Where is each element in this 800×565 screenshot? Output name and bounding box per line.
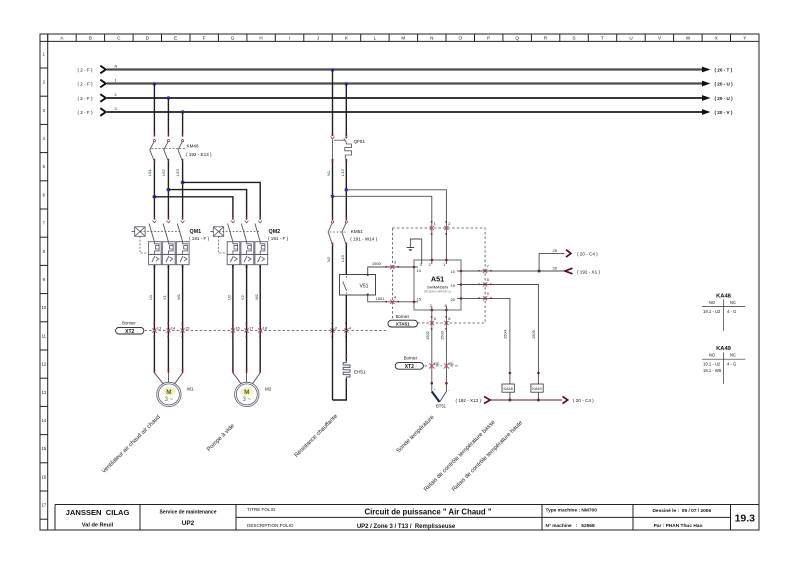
svg-text:KA48: KA48 [716,294,732,300]
svg-text:3: 3 [115,107,117,111]
svg-text:L53: L53 [175,169,180,176]
svg-text:KM46: KM46 [187,144,199,149]
svg-text:A51: A51 [431,275,444,284]
svg-text:19.1 - U2: 19.1 - U2 [703,309,721,314]
sheet frame outer border [40,34,759,530]
heater bottom return wire [333,378,347,400]
svg-text:L: L [374,36,377,41]
terminal XT2:151 [444,362,454,369]
terminal XT2:18 [258,323,268,338]
destination arrow ( 20 - U ) [702,81,711,87]
svg-text:Par : PHAN Thuc Hao: Par : PHAN Thuc Hao [654,523,703,529]
svg-text:( 191 - F ): ( 191 - F ) [189,236,210,241]
svg-text:150: 150 [434,362,440,366]
circuit breaker QF51 [331,133,366,162]
svg-text:Type machine : NM700: Type machine : NM700 [546,508,598,514]
relay coil KA48 [502,384,514,392]
svg-text:15: 15 [185,325,190,330]
svg-text:19.1 - W6: 19.1 - W6 [703,368,722,373]
svg-text:M1: M1 [187,387,194,392]
svg-text:J: J [317,36,319,41]
svg-text:B: B [89,36,92,41]
motor feeder wire [259,265,261,268]
bornier XTA51 dashed enclosure [392,228,485,323]
motor M1 [154,373,194,407]
title block frame [55,504,759,506]
svg-text:2: 2 [115,93,117,97]
terminal XT2:150 [429,362,439,369]
motor M2 [233,373,272,407]
svg-text:17: 17 [249,325,254,330]
crossover wire phase2 to QM2 [168,190,246,217]
svg-text:U2: U2 [227,294,232,300]
terminal XTA51:5 [430,316,437,330]
wire 1503 pin8 down [445,310,447,392]
common wire (192-X13) to (20-C4) [456,396,595,403]
svg-text:26: 26 [553,265,558,270]
svg-text:I: I [289,36,290,41]
svg-text:14: 14 [171,325,176,330]
node on line 2 feeding KM46 [167,96,170,99]
svg-text:X: X [715,36,718,41]
svg-text:L12: L12 [340,169,345,176]
coil return wires [509,392,511,400]
row ruler ticks and numbers [40,67,48,69]
svg-text:13: 13 [41,390,46,395]
wire L drop to QF51 [345,84,347,134]
svg-text:Bornier: Bornier [396,314,410,319]
svg-text:XT2: XT2 [125,329,134,335]
supply wire N to A51 pin 2 [333,196,432,260]
crossover wire phase1 to QM2 [154,197,233,217]
svg-text:14: 14 [417,268,422,273]
relay coil KA49 [531,384,543,392]
svg-text:N° machine : 52568: N° machine : 52568 [546,523,595,529]
svg-text:10: 10 [451,269,456,274]
svg-text:( 2 - F ): ( 2 - F ) [77,67,93,72]
contactor KM51 [328,217,377,247]
svg-text:QM1: QM1 [190,229,202,235]
power line N [107,68,703,70]
svg-text:( 192 - E13 ): ( 192 - E13 ) [186,152,212,157]
svg-text:( 2 - F ): ( 2 - F ) [77,96,93,101]
svg-text:TITRE FOLIO: TITRE FOLIO [247,507,276,512]
svg-text:1501: 1501 [376,296,386,301]
svg-text:1502: 1502 [425,330,430,340]
motor feeder wire [182,265,184,268]
svg-text:Bornier: Bornier [404,355,418,360]
terminal XTA51:3 [385,260,399,270]
terminal XTA51:1 [430,221,437,235]
svg-text:Val de Reuil: Val de Reuil [82,523,114,529]
svg-text:18: 18 [263,325,268,330]
svg-text:KA49: KA49 [532,387,541,391]
svg-text:( 191 - F ): ( 191 - F ) [268,236,289,241]
junction node L to A51 supply [345,188,349,192]
svg-text:UP2 / Zone 3 / T13 / Rempliss: UP2 / Zone 3 / T13 / Remplisseuse [357,524,456,530]
node on line 1 feeding QF51 [345,82,348,85]
terminal XT2:2 [330,323,338,338]
svg-text:25: 25 [553,248,558,253]
wire drop L3 to KM46 [182,112,184,134]
svg-text:15: 15 [41,446,46,451]
svg-text:( 192 - X1 ): ( 192 - X1 ) [577,269,600,274]
ground wire from A51 top [407,239,422,260]
left ruler strip line [47,34,49,530]
power line 3 [107,111,703,113]
svg-text:L51: L51 [147,169,152,176]
svg-text:( 20 - U ): ( 20 - U ) [715,96,734,101]
node on line N feeding QF51 [331,68,334,71]
svg-text:P: P [487,36,490,41]
node on line 1 feeding KM46 [153,82,156,85]
top ruler strip line [40,40,759,42]
heater wire XT2 to EH51 [345,331,347,361]
svg-text:( 20 - C4 ): ( 20 - C4 ) [577,251,598,256]
power line 2 [107,97,703,99]
svg-text:JANSSEN CILAG: JANSSEN CILAG [66,508,130,517]
thermocouple BT51 [431,382,451,408]
svg-text:20: 20 [451,297,456,302]
svg-text:( 191 - W14 ): ( 191 - W14 ) [350,237,377,242]
bornier XT2 (sonde) label [395,355,458,370]
svg-text:S: S [573,36,576,41]
svg-text:NC: NC [730,300,736,305]
QF51 output wires to KM51 [332,162,334,217]
column ruler ticks and letters [47,34,49,41]
wire drop L2 to KM46 [167,98,169,134]
svg-text:M: M [166,389,171,396]
svg-text:M: M [401,36,405,41]
svg-text:1503: 1503 [439,330,444,340]
bornier XTA51 label [388,314,418,327]
svg-text:XTA51: XTA51 [396,322,410,327]
node on line 3 feeding KM46 [181,110,184,113]
terminal XTA51:2 [444,221,451,235]
svg-text:1: 1 [115,79,117,83]
svg-text:N: N [430,36,433,41]
supply wire L to A51 pin 1 [346,190,446,260]
svg-text:17: 17 [41,503,46,508]
terminal XT2:17 [245,323,255,338]
svg-text:M: M [244,389,249,396]
svg-text:19: 19 [451,283,456,288]
svg-text:DESCRIPTION FOLIO: DESCRIPTION FOLIO [247,523,294,528]
svg-text:EH51: EH51 [354,370,366,375]
svg-text:KA49: KA49 [716,346,732,352]
svg-text:U: U [629,36,632,41]
destination arrow ( 20 - T ) [702,67,711,73]
svg-text:+: + [434,388,436,392]
junction node phase1 [153,195,157,199]
motor circuit breaker QM2 [210,216,288,264]
svg-text:XT2: XT2 [405,364,414,370]
svg-text:KM51: KM51 [351,229,363,234]
junction node phase2 [167,188,171,192]
svg-text:151: 151 [448,362,454,366]
svg-text:14: 14 [41,418,46,423]
motor circuit breaker QM1 [132,216,210,264]
svg-text:N1: N1 [326,170,331,176]
destination arrow ( 20 - U ) [702,95,711,101]
svg-text:( 20 - C4 ): ( 20 - C4 ) [573,398,594,403]
neutral wire down to heater return [332,246,334,400]
phase wire V51 to XT2 [345,295,347,330]
terminal XT2:14 [166,323,176,338]
svg-text:3 ~: 3 ~ [165,397,174,403]
wire to arrow 25 [539,253,564,271]
terminal XT2:16 [231,323,241,338]
heating resistor EH51 (meander) [343,361,366,378]
wire A51 pin10 to arrows [461,270,566,272]
svg-text:3 ~: 3 ~ [243,397,252,403]
svg-text:16: 16 [41,474,46,479]
motor feeder wire [168,265,170,268]
terminal XTA51:6 [444,316,451,330]
svg-text:NC: NC [730,353,736,358]
svg-text:M2: M2 [265,387,272,392]
svg-text:V2: V2 [240,294,245,300]
svg-text:V51: V51 [360,283,369,289]
regulator A51 [413,259,463,312]
svg-text:( 2 - F ): ( 2 - F ) [77,81,93,86]
junction node N to A51 supply [331,195,335,199]
crossover wire phase3 to QM2 [183,182,261,216]
svg-text:V1: V1 [162,294,167,300]
svg-text:Service de maintenance: Service de maintenance [160,510,217,516]
svg-text:N: N [115,65,118,69]
svg-text:N2: N2 [326,256,331,262]
terminal XTA51:9 [478,291,492,301]
svg-text:U1: U1 [148,294,153,300]
terminal XT2:4 [344,323,352,338]
svg-text:( 20 - V ): ( 20 - V ) [715,110,733,115]
svg-text:G: G [231,36,235,41]
svg-text:15: 15 [417,296,422,301]
svg-text:1500: 1500 [372,261,382,266]
power line 1 [107,82,703,84]
svg-text:4 - G: 4 - G [727,309,736,314]
svg-text:Dessiné le : 09 / 07 / 2006: Dessiné le : 09 / 07 / 2006 [652,508,711,514]
relay contact cross-reference table KA49 [702,346,745,384]
svg-text:19.1 - U2: 19.1 - U2 [703,362,721,367]
svg-text:W1: W1 [176,293,181,300]
svg-text:F: F [203,36,206,41]
svg-text:KA48: KA48 [503,387,512,391]
svg-text:O: O [459,36,463,41]
wire 1504 A51 pin20 to KA48 [461,298,510,384]
motor feeder wire [232,265,234,268]
svg-text:SR 253-K1 NP4-0P 1-0: SR 253-K1 NP4-0P 1-0 [424,290,451,294]
svg-text:L52: L52 [161,169,166,176]
svg-text:( 2 - F ): ( 2 - F ) [77,110,93,115]
svg-text:Y: Y [743,36,746,41]
junction node phase3 [181,181,185,185]
terminal XTA51:7 [478,264,492,274]
wire N drop to QF51 [332,70,334,134]
terminal XT2:13 [152,323,162,338]
svg-text:Bornier: Bornier [122,321,136,326]
solid state relay V51 [340,275,376,296]
terminal XTA51:4 [385,294,399,304]
svg-text:W2: W2 [254,293,259,300]
svg-text:19.3: 19.3 [735,513,756,525]
destination arrow ( 20 - V ) [702,109,711,115]
svg-text:BT51: BT51 [436,403,447,408]
svg-text:1504: 1504 [503,329,508,339]
phase wire KM51 to V51 [345,246,347,275]
svg-text:Q: Q [515,36,519,41]
node 25/26 [538,270,541,273]
svg-text:( 20 - T ): ( 20 - T ) [715,68,733,73]
arrow 26 from (192-X1) [565,268,573,274]
wire 1505 A51 pin19 to KA49 [461,285,538,385]
wire 1502 pin7 down [431,310,433,392]
svg-text:E: E [174,36,177,41]
svg-text:Circuit de puissance " Air Cha: Circuit de puissance " Air Chaud " [364,508,491,517]
svg-text:UP2: UP2 [182,520,195,527]
KM46 output wires down to QM1 [153,162,155,217]
svg-text:SHIMADEN: SHIMADEN [427,284,448,289]
contactor KM46 [150,133,212,162]
svg-text:NO: NO [709,353,716,358]
svg-text:10: 10 [41,305,46,310]
svg-text:( 192 - X13 ): ( 192 - X13 ) [456,398,482,403]
svg-text:QF51: QF51 [354,139,366,144]
motor feeder wire [154,265,156,268]
terminal XTA51:8 [478,277,492,287]
pin stubs [414,260,461,310]
svg-text:L13: L13 [340,255,345,262]
terminal strip XT2 dashed line [145,330,388,332]
svg-text:12: 12 [41,362,46,367]
svg-text:H: H [259,36,262,41]
svg-text:T: T [601,36,604,41]
wire 1501 V51 to A51 pin15 [367,294,415,302]
wire 1500 V51 to A51 pin14 [367,261,415,276]
svg-text:NO: NO [709,300,716,305]
svg-text:( 20 - U ): ( 20 - U ) [715,82,734,87]
relay contact cross-reference table KA48 [702,294,745,332]
svg-text:4 - G: 4 - G [727,362,736,367]
svg-text:1505: 1505 [531,329,536,339]
wire drop L1 to KM46 [153,84,155,134]
terminal XT2:15 [181,323,191,338]
svg-text:QM2: QM2 [269,229,281,235]
svg-text:13: 13 [157,325,162,330]
motor feeder wire [246,265,248,268]
svg-text:11: 11 [42,333,47,338]
svg-text:16: 16 [235,325,240,330]
arrow 25 to (20-C4) [566,250,571,257]
svg-text:W: W [686,36,691,41]
